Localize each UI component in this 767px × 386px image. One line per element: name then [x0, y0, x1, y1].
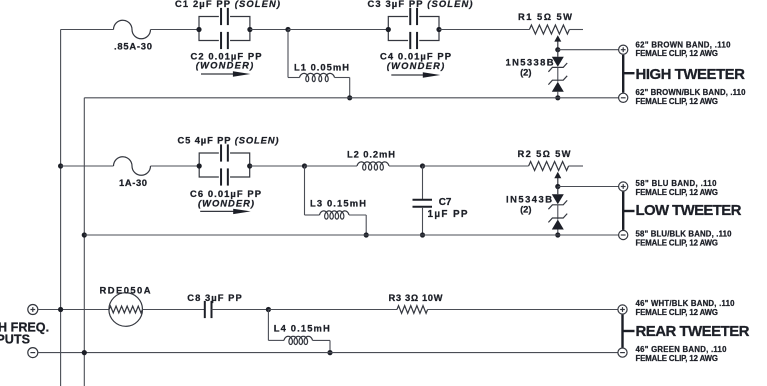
svg-text:1A-30: 1A-30 — [119, 177, 147, 188]
wire: + bus vertical line 1 — [60, 30, 62, 386]
node dot bus2 - input — [82, 350, 87, 355]
wire L1 tap to C3/C4 — [288, 29, 388, 31]
wire L1 corner down to bottom — [349, 78, 351, 98]
wire row2 bottom — [84, 234, 618, 236]
terminal + rear tweeter — [618, 305, 627, 314]
bracket rear tweeter — [621, 315, 623, 348]
terminal - input — [28, 348, 38, 358]
terminal - high tweeter — [619, 93, 628, 102]
node dot L4 tap — [266, 307, 271, 312]
zener diode D3 IN5343B — [557, 186, 559, 194]
resistor R3 zigzag — [397, 306, 428, 314]
svg-text:C5 4µF PP (SOLEN): C5 4µF PP (SOLEN) — [178, 134, 279, 145]
node dot L4 bottom — [327, 350, 332, 355]
svg-text:46" GREEN BAND, .110: 46" GREEN BAND, .110 — [636, 345, 728, 354]
wire R3 to + terminal — [428, 309, 618, 311]
svg-text:46" WHT/BLK BAND, .110: 46" WHT/BLK BAND, .110 — [636, 299, 736, 308]
inductor L3 0.15mH — [320, 211, 350, 219]
svg-text:L2 0.2mH: L2 0.2mH — [347, 149, 395, 160]
svg-text:C3 3µF PP (SOLEN): C3 3µF PP (SOLEN) — [368, 0, 473, 9]
svg-text:C1 2µF PP (SOLEN): C1 2µF PP (SOLEN) — [175, 0, 280, 9]
node dot L1 tap — [285, 27, 290, 32]
node dot bus1 row2 tap — [58, 163, 63, 168]
wire L1 branch down — [287, 30, 289, 78]
svg-text:R2 5Ω 5W: R2 5Ω 5W — [518, 148, 571, 159]
capacitor pair C3/C4 parallel box — [388, 17, 439, 30]
terminal + high tweeter — [619, 45, 628, 54]
arrow direction marker under C6 — [200, 210, 235, 212]
arrow direction marker under C2 — [201, 73, 235, 75]
node dot L3 bottom — [364, 232, 369, 237]
node dot right of C5/C6 — [247, 163, 252, 168]
svg-text:FEMALE CLIP, 12 AWG: FEMALE CLIP, 12 AWG — [636, 239, 719, 248]
wire L3 entry — [305, 214, 320, 216]
wire + tap to terminal — [558, 49, 619, 51]
node dot left of C1/C2 — [196, 27, 201, 32]
wire L3 corner down — [365, 215, 367, 235]
wire RDE050A to C8 — [143, 309, 205, 311]
wire C1/C2 to L1 tap — [250, 29, 288, 31]
zener diode D4 IN5343B — [548, 214, 567, 223]
wire zener D4 to bottom — [557, 230, 559, 236]
wire L1 branch horizontal entry — [288, 77, 300, 79]
node dot L2/L3 tap — [302, 163, 307, 168]
svg-text:FEMALE CLIP, 12 AWG: FEMALE CLIP, 12 AWG — [636, 49, 719, 58]
svg-text:R1 5Ω 5W: R1 5Ω 5W — [518, 11, 572, 22]
inductor L1 0.05mH — [300, 73, 335, 81]
node dot C7 tap — [420, 163, 425, 168]
bracket low tweeter — [622, 192, 624, 230]
terminal - low tweeter — [619, 230, 628, 239]
svg-text:R3 3Ω 10W: R3 3Ω 10W — [389, 292, 443, 303]
wire L4 corner down — [329, 340, 331, 352]
wire L4 entry — [268, 339, 284, 341]
inductor L4 0.15mH — [284, 336, 313, 344]
svg-text:FEMALE CLIP, 12 AWG: FEMALE CLIP, 12 AWG — [636, 354, 719, 363]
svg-text:L3 0.15mH: L3 0.15mH — [310, 197, 366, 208]
thermistor RDE050A circle — [109, 293, 143, 327]
node dot diode top / + tap — [555, 47, 560, 52]
wire: - bus vertical line 2 — [83, 98, 85, 386]
zener diode D1 1N5338B — [557, 49, 559, 57]
svg-text:RDE050A: RDE050A — [100, 284, 151, 295]
arrow diode branch to R1 wire — [557, 39, 559, 50]
svg-text:58" BLU BAND, .110: 58" BLU BAND, .110 — [636, 179, 718, 188]
capacitor C8 plates — [204, 301, 206, 318]
zener diode D2 1N5338B — [548, 76, 567, 85]
wire row2 top: bus to fuse F2 — [61, 165, 114, 167]
terminal + low tweeter — [619, 182, 628, 191]
svg-text:(WONDER): (WONDER) — [196, 60, 254, 71]
resistor R1 zigzag — [529, 25, 569, 34]
inductor L2 0.2mH — [357, 162, 389, 170]
wire row1 bottom — [84, 97, 618, 99]
node dot bus2 row2 tap — [82, 232, 87, 237]
wire tap to L2 — [305, 165, 358, 167]
wire L4 branch down — [267, 310, 269, 341]
svg-text:INPUTS: INPUTS — [0, 333, 30, 347]
wire L4 tap to R3 — [268, 309, 397, 311]
svg-text:C7: C7 — [439, 197, 452, 208]
node dot right of C3/C4 — [436, 27, 441, 32]
node dot diode bottom row2 — [555, 232, 560, 237]
wire between zeners — [557, 67, 559, 81]
capacitor pair C5/C6 parallel box — [199, 153, 250, 166]
svg-text:.85A-30: .85A-30 — [114, 40, 152, 51]
wire C7 node to R2 — [423, 165, 529, 167]
node dot diode bottom — [555, 95, 560, 100]
resistor R2 zigzag — [529, 162, 569, 171]
wire C7 vertical top — [422, 166, 424, 199]
wire C7 vertical bottom — [422, 208, 424, 235]
wire fuse F2 to C5/C6 — [151, 165, 200, 167]
wire L2 to C7 node — [389, 165, 423, 167]
svg-text:(2): (2) — [520, 204, 531, 215]
capacitor pair C1/C2 parallel box — [199, 17, 250, 30]
wire R2 right stub — [569, 165, 583, 167]
wire + input to RDE050A — [38, 309, 109, 311]
svg-text:62" BROWN/BLK BAND, .110: 62" BROWN/BLK BAND, .110 — [636, 88, 747, 97]
terminal + input — [28, 305, 38, 315]
wire L4 exit — [313, 339, 331, 341]
wire C8 to L4 tap — [212, 309, 269, 311]
wire R1 right stub — [569, 29, 583, 31]
svg-text:58" BLU/BLK BAND, .110: 58" BLU/BLK BAND, .110 — [636, 230, 733, 239]
svg-text:L4 0.15mH: L4 0.15mH — [274, 322, 330, 333]
svg-text:REAR TWEETER: REAR TWEETER — [636, 323, 750, 340]
bracket high tweeter — [622, 55, 624, 93]
svg-text:HIGH TWEETER: HIGH TWEETER — [636, 66, 746, 83]
node dot L1 to bottom wire — [347, 95, 352, 100]
terminal - rear tweeter — [618, 348, 627, 357]
fuse F2 1A-30 — [114, 157, 151, 176]
wire zener D2 to bottom — [557, 92, 559, 98]
fuse F1 .85A-30 — [114, 20, 151, 38]
wire L3 branch down — [304, 166, 306, 215]
wire fuse F1 to C1/C2 — [151, 29, 200, 31]
wire + tap row2 to terminal — [558, 186, 619, 188]
node dot C7 bottom — [420, 232, 425, 237]
node dot bus1 + input — [58, 307, 63, 312]
svg-text:L1 0.05mH: L1 0.05mH — [294, 61, 349, 72]
wire L1 exit to corner — [335, 77, 350, 79]
svg-text:LOW TWEETER: LOW TWEETER — [636, 202, 742, 219]
svg-text:(WONDER): (WONDER) — [198, 198, 254, 209]
arrow direction marker under C4 — [391, 74, 425, 76]
svg-text:(WONDER): (WONDER) — [387, 60, 445, 71]
wire between zeners row2 — [557, 205, 559, 220]
node dot diode top row2 — [555, 184, 560, 189]
arrow diode branch to R2 wire — [557, 176, 559, 187]
capacitor C7 plates — [413, 199, 433, 201]
thermistor RDE050A zigzag — [109, 306, 142, 313]
svg-text:(2): (2) — [520, 67, 531, 78]
svg-text:FEMALE CLIP, 12 AWG: FEMALE CLIP, 12 AWG — [636, 97, 719, 106]
wire - input to terminal — [38, 352, 618, 354]
svg-text:62" BROWN BAND, .110: 62" BROWN BAND, .110 — [636, 40, 732, 49]
svg-text:C8 3µF PP: C8 3µF PP — [187, 292, 242, 303]
svg-text:FEMALE CLIP, 12 AWG: FEMALE CLIP, 12 AWG — [636, 188, 719, 197]
node dot left of C5/C6 — [197, 163, 202, 168]
node dot right of C1/C2 — [247, 27, 252, 32]
wire C3/C4 to R1 — [439, 29, 529, 31]
svg-text:FEMALE CLIP, 12 AWG: FEMALE CLIP, 12 AWG — [636, 308, 719, 317]
wire row1 top: bus to fuse F1 — [61, 29, 114, 31]
wire C5/C6 to L3 tap — [250, 165, 305, 167]
node dot left of C3/C4 — [386, 27, 391, 32]
wire L3 exit — [349, 214, 366, 216]
